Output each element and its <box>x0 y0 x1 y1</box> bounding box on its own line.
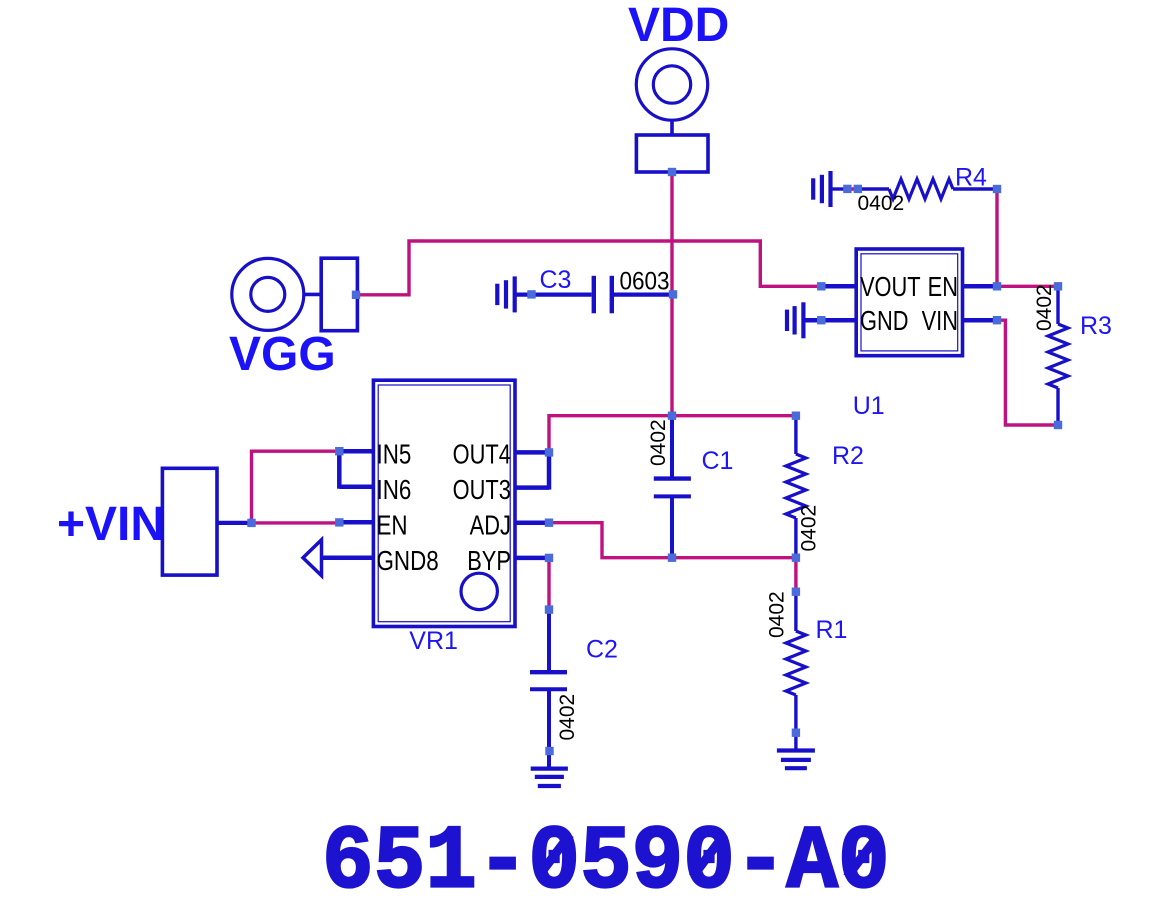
value 0402 of C1 (rotated) <box>647 419 670 466</box>
svg-text:0402: 0402 <box>1033 284 1056 331</box>
junction BYP <box>545 554 553 562</box>
junction R2 top <box>792 412 800 420</box>
svg-text:C1: C1 <box>702 447 734 475</box>
svg-text:IN5: IN5 <box>377 439 412 470</box>
junction C3 left <box>527 290 535 298</box>
wire +VIN stub <box>217 521 252 525</box>
wire ground to C3 <box>515 293 591 297</box>
wire VGG circle to rect <box>304 293 322 297</box>
wire C3 to VDD net <box>612 293 673 297</box>
junction U1 VOUT <box>817 282 825 290</box>
wire VDD net vertical <box>670 172 673 416</box>
pin IN5 label <box>377 439 412 470</box>
ground at C2 <box>531 769 568 786</box>
capacitor C1 plates <box>654 479 691 497</box>
capacitor C3 plates <box>594 276 612 314</box>
pin EN label <box>928 271 958 302</box>
svg-text:0402: 0402 <box>798 505 821 552</box>
pin stub GND8 <box>321 555 373 560</box>
junction C3 right on VDD net <box>669 290 677 298</box>
wire ground to R4 <box>831 187 846 190</box>
junction U1 VIN <box>993 316 1001 324</box>
ferrite bead FB (rectangle) <box>636 135 708 172</box>
resistor R3 <box>1048 286 1068 425</box>
pin stub BYP <box>515 556 549 561</box>
svg-text:ADJ: ADJ <box>470 510 511 541</box>
resistor R4 zigzag <box>889 179 953 199</box>
svg-text:R2: R2 <box>832 442 864 470</box>
junction R3 top <box>1054 282 1062 290</box>
power port VDD symbol (concentric circles) <box>636 49 707 120</box>
ground (sideways) at C3 <box>497 276 514 312</box>
svg-text:0603: 0603 <box>620 267 670 295</box>
title 651-0590-A0 <box>322 813 890 908</box>
pin OUT3 label <box>453 474 511 505</box>
power port VGG symbol (concentric circles) <box>232 258 304 330</box>
svg-text:IN6: IN6 <box>377 475 412 506</box>
pin stub U1 GND <box>805 318 856 323</box>
svg-text:VOUT: VOUT <box>860 271 921 302</box>
junction ADJ <box>545 519 553 527</box>
junction R2 bottom <box>792 554 800 562</box>
svg-text:VGG: VGG <box>229 328 336 381</box>
value 0402 of R3 (rotated) <box>1033 284 1056 331</box>
resistor R1 <box>786 592 806 733</box>
pin stub U1 VIN <box>963 318 998 323</box>
capacitor C2 plates <box>530 672 567 689</box>
value 0402 of R1 (rotated) <box>766 591 789 638</box>
svg-text:R1: R1 <box>816 616 848 644</box>
pin stub IN6 <box>339 484 373 489</box>
wire ADJ to bottom row <box>549 523 796 558</box>
wire EN net up to IN5 <box>252 451 340 523</box>
wire +VIN to EN pin <box>252 521 340 524</box>
ground (sideways) at R4 <box>813 171 830 207</box>
svg-text:0402: 0402 <box>766 591 789 638</box>
svg-text:VIN: VIN <box>922 305 958 336</box>
op-amp U1 box <box>856 249 962 356</box>
title zero slash 1 <box>538 834 570 877</box>
junction U1 EN <box>993 282 1001 290</box>
svg-text:GND: GND <box>860 305 909 336</box>
wire R4 net (magenta under junctions) <box>845 187 862 190</box>
svg-text:EN: EN <box>928 271 958 302</box>
value 0603 <box>620 267 670 295</box>
junction C2 bottom <box>545 747 553 755</box>
pin OUT4 label <box>453 439 511 470</box>
wire EN to R3 top <box>997 285 1058 288</box>
junction R4 left b <box>854 185 862 193</box>
title zero slash 2 <box>693 834 725 877</box>
svg-text:EN: EN <box>377 510 408 541</box>
svg-text:BYP: BYP <box>467 545 511 576</box>
pin stub U1 EN <box>963 284 998 289</box>
wire R4 left lead <box>861 187 889 190</box>
arrow port GND8 <box>303 540 322 576</box>
svg-text:GND8: GND8 <box>377 546 439 577</box>
port +VIN rect <box>162 468 217 575</box>
svg-text:VR1: VR1 <box>409 627 458 655</box>
value 0402 of R2 (rotated) <box>798 505 821 552</box>
wire OUT4-OUT3 tie <box>547 450 552 489</box>
svg-text:0402: 0402 <box>858 192 905 215</box>
capacitor C2 top lead <box>547 610 551 670</box>
value 0402 of C2 (rotated) <box>556 694 579 741</box>
ground (sideways) at U1 GND <box>787 302 803 338</box>
junction EN stub <box>335 518 343 526</box>
pin stub ADJ <box>515 520 549 525</box>
svg-text:0402: 0402 <box>556 694 579 741</box>
pin stub OUT4 <box>515 450 549 455</box>
junction VDD bead <box>668 168 676 176</box>
capacitor C2 bottom lead <box>547 689 551 768</box>
junction U1 GND <box>817 316 825 324</box>
junction R1 top <box>792 588 800 596</box>
ground at R1 <box>777 751 815 769</box>
wire OUT4 up to VOUT row <box>549 416 796 453</box>
pin VOUT label <box>860 271 921 302</box>
junction R1 bottom <box>792 729 800 737</box>
svg-text:U1: U1 <box>853 392 885 420</box>
circle pin1 mark inside VR1 <box>461 573 497 609</box>
pin stub EN <box>339 520 373 525</box>
junction C1 bottom <box>668 554 676 562</box>
svg-text:C3: C3 <box>540 266 572 294</box>
wire VDD circle to bead <box>670 120 674 136</box>
pin GND label <box>860 305 909 336</box>
junction R3 bottom <box>1054 421 1062 429</box>
wire VGG net to U1 VOUT <box>356 241 820 295</box>
pin ADJ label <box>470 510 511 541</box>
capacitor C1 bottom lead <box>670 496 674 557</box>
svg-text:OUT4: OUT4 <box>453 439 511 470</box>
svg-text:R3: R3 <box>1080 312 1112 340</box>
svg-text:+VIN: +VIN <box>57 498 165 551</box>
svg-text:651-0590-A0: 651-0590-A0 <box>322 813 890 908</box>
wire R1 to ground <box>794 733 797 751</box>
pin EN label <box>377 510 408 541</box>
junction VGG rect <box>352 291 360 299</box>
pin BYP label <box>467 545 511 576</box>
svg-text:R4: R4 <box>955 164 987 192</box>
wire R4 to EN net <box>995 189 998 286</box>
wire R4 right lead <box>953 187 997 190</box>
junction R4 right <box>993 185 1001 193</box>
regulator VR1 box <box>373 380 515 626</box>
title zero slash 3 <box>847 834 879 877</box>
capacitor C1 top lead <box>670 416 674 477</box>
resistor R2 <box>786 416 806 558</box>
pin VIN label <box>922 305 958 336</box>
svg-text:OUT3: OUT3 <box>453 474 511 505</box>
svg-text:0402: 0402 <box>647 419 670 466</box>
pin IN6 label <box>377 475 412 506</box>
pin stub IN5 <box>339 449 373 454</box>
junction C1 top <box>668 412 676 420</box>
component VGG series rect <box>321 258 357 331</box>
svg-text:VDD: VDD <box>628 0 729 52</box>
wire BYP down to C2 <box>547 558 550 610</box>
pin stub U1 VOUT <box>820 284 856 289</box>
pin stub OUT3 <box>515 485 549 490</box>
pin GND8 label <box>377 546 439 577</box>
junction +VIN <box>247 519 255 527</box>
wire VIN to R3 bottom <box>997 320 1058 425</box>
wire IN5-IN6 tie <box>337 449 342 489</box>
junction OUT4 <box>545 448 553 456</box>
wire R2 bottom to R1 top <box>794 558 797 592</box>
svg-text:C2: C2 <box>586 636 618 664</box>
junction IN5 <box>335 447 343 455</box>
junction C2 top <box>545 605 553 613</box>
junction R4 left a <box>843 185 851 193</box>
